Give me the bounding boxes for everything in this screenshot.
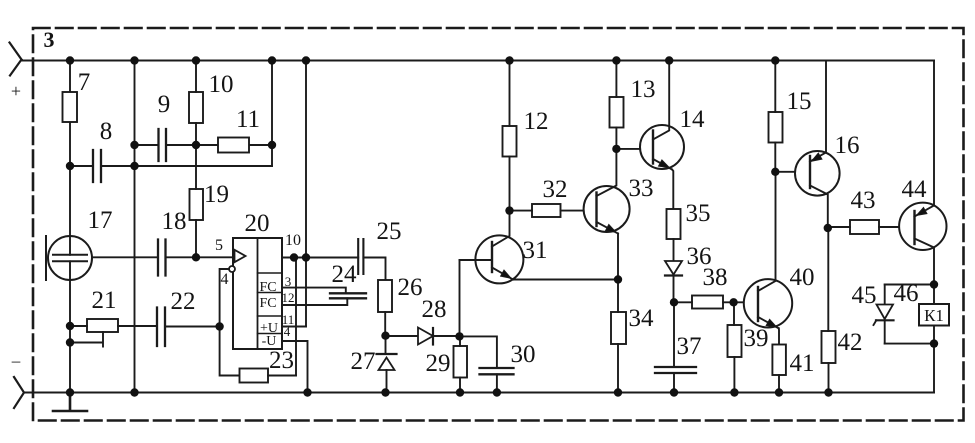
capacitor C25	[358, 239, 363, 274]
svg-text:10: 10	[285, 232, 301, 249]
wire pin10 row	[282, 257, 358, 259]
node R38/R39/Q40	[729, 298, 737, 306]
node R26/D27/D28	[381, 332, 389, 340]
svg-text:38: 38	[703, 264, 728, 291]
svg-text:31: 31	[523, 237, 548, 264]
wire Q40 base	[734, 301, 758, 303]
svg-text:19: 19	[204, 181, 229, 208]
input terminal +	[10, 43, 22, 76]
svg-text:32: 32	[543, 176, 568, 203]
wire Q16 base	[775, 171, 810, 173]
resistor R12	[503, 126, 517, 157]
svg-text:37: 37	[677, 333, 702, 360]
piezo sensor 17	[48, 236, 92, 280]
svg-text:12: 12	[524, 108, 549, 135]
resistor R32	[532, 204, 561, 217]
wire V2 rail to pin11	[305, 61, 307, 327]
resistor R29	[454, 346, 468, 378]
svg-text:34: 34	[629, 305, 655, 332]
capacitor C24	[330, 293, 366, 298]
resistor R21 with tap	[87, 319, 118, 332]
svg-text:5: 5	[215, 237, 223, 254]
svg-text:13: 13	[631, 76, 656, 103]
svg-text:18: 18	[162, 208, 187, 235]
svg-text:16: 16	[835, 132, 860, 159]
svg-text:-U: -U	[262, 334, 277, 349]
svg-text:К1: К1	[924, 306, 944, 325]
diode D27	[377, 353, 397, 355]
input terminal -	[14, 377, 24, 408]
resistor R10	[189, 92, 203, 123]
svg-text:17: 17	[88, 207, 113, 234]
wire C25 to R26	[363, 258, 385, 281]
wire pin4 right down to rail	[282, 341, 308, 393]
wire pin4 left branch	[220, 269, 240, 376]
wire y257 row	[92, 256, 233, 258]
svg-text:9: 9	[158, 91, 171, 118]
svg-text:+: +	[11, 81, 21, 101]
transistor Q31	[475, 235, 523, 283]
wire V1 pin10 to R23	[295, 258, 297, 376]
svg-text:23: 23	[269, 347, 294, 374]
wire Q31 emitter row	[513, 279, 618, 281]
wire D45 bottom branch	[885, 343, 934, 345]
diode D28	[386, 335, 419, 337]
svg-text:35: 35	[686, 200, 711, 227]
node R12/R32/Q31 collector	[505, 206, 513, 214]
svg-text:21: 21	[92, 287, 117, 314]
resistor R43	[850, 220, 879, 234]
resistor R11	[218, 138, 249, 153]
svg-text:30: 30	[511, 341, 536, 368]
capacitor C22	[157, 308, 165, 347]
wire pin3 row	[282, 288, 346, 294]
IC U20 input triangle pin5	[235, 250, 246, 262]
wire y166 row	[135, 165, 273, 167]
svg-text:22: 22	[171, 288, 196, 315]
svg-text:FC: FC	[259, 280, 276, 295]
wire top supply rail	[22, 60, 935, 62]
wire column x70 upper	[69, 61, 71, 167]
resistor R15	[769, 112, 783, 143]
capacitor C30	[460, 336, 497, 392]
wire column x272	[271, 61, 273, 167]
svg-text:44: 44	[902, 176, 928, 203]
resistor R13	[610, 97, 624, 128]
svg-text:45: 45	[852, 282, 877, 309]
svg-text:46: 46	[894, 280, 919, 307]
svg-text:4: 4	[284, 324, 291, 339]
resistor R7	[63, 92, 78, 122]
resistor R19	[190, 189, 204, 220]
wire rail up to K1	[933, 344, 935, 393]
wire y145 row	[135, 144, 273, 146]
svg-text:–: –	[11, 351, 21, 370]
node C18 / pin5	[192, 253, 200, 261]
wire C22 to node	[165, 326, 220, 328]
wire piezo bottom lead	[69, 261, 71, 392]
resistor R26	[378, 280, 392, 312]
svg-text:7: 7	[78, 69, 91, 96]
node top rail junctions	[66, 56, 74, 64]
svg-text:42: 42	[838, 329, 863, 356]
svg-text:43: 43	[851, 187, 876, 214]
svg-text:FC: FC	[259, 296, 276, 311]
zener diode D45	[884, 285, 886, 305]
svg-text:8: 8	[100, 118, 113, 145]
resistor R34	[611, 312, 626, 344]
transistor Q40	[744, 279, 792, 327]
resistor R38	[692, 296, 723, 309]
transistor Q33	[584, 186, 630, 232]
transistor Q14	[640, 125, 684, 169]
svg-text:24: 24	[332, 261, 358, 288]
node Q16 coll/R43/R42	[824, 224, 832, 232]
svg-text:27: 27	[351, 348, 376, 375]
wire R10 leads	[195, 61, 197, 146]
svg-text:29: 29	[426, 350, 451, 377]
resistor R39	[728, 325, 742, 357]
transistor Q44	[899, 203, 946, 250]
resistor R35	[667, 209, 681, 239]
node R13/Q33/Q14	[612, 145, 620, 153]
svg-text:25: 25	[377, 218, 402, 245]
wire Q31 base column	[459, 260, 461, 336]
svg-text:33: 33	[629, 175, 654, 202]
node C22 / pin4	[215, 322, 223, 330]
ground	[53, 393, 87, 412]
node R15/Q16/Q40	[771, 168, 779, 176]
wire C8 leads	[70, 165, 135, 167]
wire R23 right lead	[268, 375, 296, 377]
node D36/R38/C37	[670, 298, 678, 306]
svg-text:3: 3	[44, 27, 55, 52]
wire bottom rail	[24, 392, 934, 394]
capacitor C9	[159, 129, 167, 161]
wire column x134.5 full	[134, 61, 136, 393]
IC U20 body	[233, 238, 282, 349]
capacitor C8	[93, 150, 101, 182]
wire piezo top lead	[69, 166, 71, 255]
svg-text:11: 11	[236, 106, 260, 133]
svg-text:15: 15	[787, 88, 812, 115]
node Q44 coll/D45/K1	[930, 280, 938, 288]
svg-text:14: 14	[680, 106, 706, 133]
resistor R23	[240, 369, 269, 383]
svg-text:28: 28	[422, 296, 447, 323]
capacitor C18	[158, 240, 166, 276]
node y166 junctions	[66, 162, 74, 170]
svg-text:3: 3	[285, 274, 292, 289]
relay K1	[933, 285, 935, 344]
svg-text:26: 26	[398, 274, 423, 301]
resistor R41	[772, 345, 786, 376]
IC U20 inversion bubble pin4	[229, 266, 235, 272]
node pin10 wire	[290, 253, 298, 261]
node bottom rail junctions	[66, 388, 74, 396]
node K1 bottom/D45	[930, 339, 938, 347]
svg-text:41: 41	[790, 350, 815, 377]
node y145 junctions	[130, 141, 138, 149]
transistor Q16	[795, 151, 840, 196]
svg-text:10: 10	[209, 71, 234, 98]
svg-text:40: 40	[790, 264, 815, 291]
wire R19 leads	[195, 145, 197, 257]
resistor R42	[822, 331, 836, 363]
wire D45 top branch	[885, 284, 934, 286]
svg-text:12: 12	[282, 290, 295, 305]
wire pin11 row	[282, 326, 306, 328]
wire R26 to node	[384, 312, 386, 336]
node R21 taps	[66, 322, 74, 330]
node emitters/R34	[614, 275, 622, 283]
node D28/R29/Q31	[455, 332, 463, 340]
wire pin12 row	[282, 298, 347, 305]
svg-text:4: 4	[221, 271, 229, 288]
diode D36	[665, 261, 682, 275]
svg-text:39: 39	[744, 325, 769, 352]
wire Q14 base row	[616, 148, 653, 150]
capacitor C37	[673, 303, 675, 393]
svg-text:20: 20	[245, 210, 270, 237]
